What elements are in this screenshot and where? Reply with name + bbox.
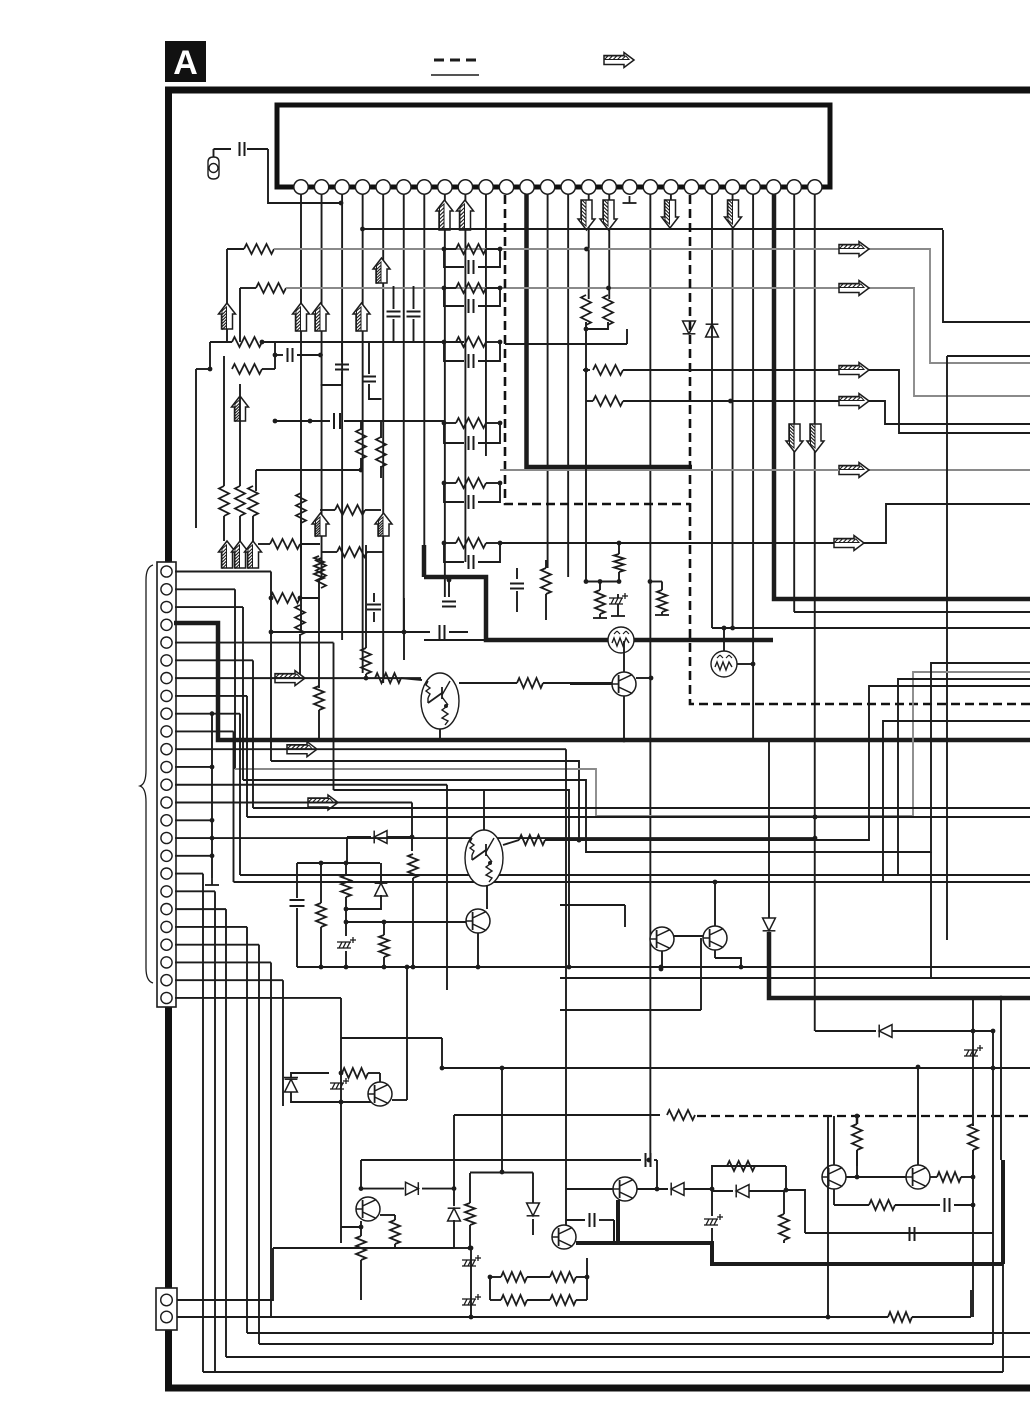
transistor Q5 (368, 1082, 392, 1106)
wire (255, 470, 257, 491)
resistor R54 (390, 1220, 400, 1244)
junction on x212 (210, 765, 215, 770)
resistor R11 (335, 505, 365, 515)
diode D10 (375, 883, 388, 896)
wire connector CN1 pin 24 (175, 979, 283, 981)
wire (387, 836, 412, 838)
resistor R80 (614, 554, 624, 572)
net row y790 (334, 790, 570, 967)
resistor R6 (376, 437, 386, 467)
junction (617, 541, 622, 546)
connector CN1 pin 5 (161, 637, 172, 648)
bus vertical pin 25 (340, 998, 342, 1038)
wire from IC pin 15 (588, 194, 590, 299)
connector CN1 pin 4 (161, 619, 172, 630)
resistor R62 (341, 875, 351, 897)
wire (618, 572, 620, 582)
resistor R30 (581, 295, 591, 325)
wire (444, 288, 464, 306)
capacitor C30 (367, 605, 381, 610)
wire x587 down (585, 401, 587, 582)
capacitor C33 (510, 584, 524, 589)
net on connector pin 7 (175, 677, 421, 679)
junction (498, 286, 503, 291)
connector CN1 pin 24 (161, 975, 172, 986)
connector CN2 pin 2 (161, 1311, 173, 1323)
bus wire thick stub (422, 545, 427, 577)
bus vertical pin 8 (246, 696, 248, 817)
transistor Q10 (906, 1165, 930, 1189)
junction (730, 626, 735, 631)
bus vertical pin 10 (233, 731, 235, 882)
junction on x212 (210, 853, 215, 858)
electrolytic capacitor C50 (462, 1294, 481, 1305)
net line y612 (794, 611, 1030, 613)
junction (659, 967, 664, 972)
net line y863 (297, 862, 380, 864)
junction (488, 861, 492, 865)
junction on x212 (210, 818, 215, 823)
capacitor C7 bold (334, 413, 340, 429)
junction (649, 676, 654, 681)
signal arrow up a19 (375, 513, 392, 537)
wire (297, 354, 321, 356)
connector CN1 pin 23 (161, 957, 172, 968)
electrolytic capacitor C51 (609, 593, 628, 604)
IC IC1 pin 20 (684, 180, 698, 194)
IC IC1 pin 17 (623, 180, 637, 194)
resistor R55 (356, 1236, 366, 1260)
connector CN1 pin 20 (161, 904, 172, 915)
wire (516, 591, 518, 612)
net line y1172 (470, 1172, 533, 1174)
wire (486, 542, 500, 544)
junction (298, 596, 303, 601)
wire (210, 341, 232, 343)
junction on y967 (319, 965, 324, 970)
wire (815, 1030, 876, 1032)
resistor R50 (852, 1124, 862, 1150)
resistor R52 (667, 1110, 695, 1120)
wire (478, 483, 500, 502)
junction (751, 662, 756, 667)
signal arrow right b8 (287, 742, 317, 757)
wire (783, 1190, 785, 1214)
wire (346, 837, 348, 863)
resistor R9 (248, 486, 258, 516)
wire (654, 1159, 657, 1161)
wire (453, 1220, 455, 1248)
wire from IC pin 3 (341, 194, 343, 640)
wire (714, 950, 716, 958)
IC IC1 pin 21 (705, 180, 719, 194)
resistor R12 (270, 539, 300, 549)
wire (340, 1038, 342, 1073)
IC IC1 pin 15 (582, 180, 596, 194)
bus line y1344 (259, 1343, 993, 1345)
wire (532, 1173, 534, 1204)
junction x815 row817 (813, 815, 818, 820)
junction (971, 1029, 976, 1034)
junction (655, 1187, 660, 1192)
ground bar (593, 617, 607, 619)
junction (584, 327, 589, 332)
resistor R25 (456, 538, 486, 548)
junction (359, 1225, 364, 1230)
wire (566, 1219, 585, 1221)
junction (452, 1186, 457, 1191)
wire (586, 400, 593, 402)
bus wire thick y740 (174, 623, 1030, 740)
IC IC1 pin 24 (767, 180, 781, 194)
wire (240, 287, 256, 289)
IC IC1 pin 22 (725, 180, 739, 194)
connector CN1 pin 12 (161, 761, 172, 772)
wire (570, 683, 612, 685)
wire (444, 482, 456, 484)
wire (711, 1191, 713, 1216)
digital transistor Q11 (465, 830, 503, 886)
wire (274, 342, 276, 369)
net row y817 (247, 816, 1030, 818)
junction (269, 630, 274, 635)
wire (320, 927, 322, 967)
wire (503, 840, 519, 845)
diode D9 (374, 831, 387, 844)
wire (586, 581, 619, 583)
resistor R39 (375, 673, 401, 683)
signal arrow up a10 (373, 258, 390, 284)
wire (895, 1204, 940, 1206)
wire (209, 342, 211, 369)
capacitor C24 (469, 495, 474, 509)
wire (972, 1124, 974, 1126)
capacitor C1 (240, 142, 245, 156)
wire (360, 1221, 362, 1236)
signal arrow up a1 (436, 200, 453, 230)
resistor R38 (361, 648, 371, 674)
junction (273, 353, 278, 358)
junction (260, 340, 265, 345)
bus vertical pin 3 (242, 607, 244, 780)
resistor R24 (456, 478, 486, 488)
wire x973 lower (972, 1150, 974, 1317)
junction (318, 353, 323, 358)
wire (661, 612, 663, 615)
wire (586, 322, 608, 329)
net line y344 (505, 343, 627, 345)
resistor R51 (968, 1124, 978, 1150)
junction (784, 1188, 789, 1193)
wire from IC pin 26 (814, 194, 816, 1031)
bus wire thick y640 (424, 577, 773, 640)
signal arrow right b4 (839, 394, 869, 409)
resistor R41 (517, 678, 543, 688)
resistor R40 (541, 568, 551, 594)
ground bar (611, 615, 625, 617)
net line y628 (712, 627, 1030, 629)
signal arrow down a8 (807, 423, 824, 452)
signal arrow right b2 (839, 281, 869, 296)
wire from IC pin 21 (711, 194, 713, 628)
wire (320, 863, 322, 903)
wire (618, 543, 620, 554)
wire (403, 598, 405, 660)
connector CN1 pin 15 (161, 815, 172, 826)
wire Q8 base (566, 1188, 613, 1190)
wire connector CN1 pin 25 (175, 997, 341, 999)
net line y342 (262, 341, 464, 343)
wire (486, 482, 500, 484)
resistor R60 (408, 854, 418, 878)
connector CN1 pin 25 (161, 992, 172, 1003)
wire (599, 614, 601, 618)
wire (768, 741, 770, 918)
wire (401, 678, 422, 680)
connector CN1 pin 21 (161, 921, 172, 932)
wire (478, 249, 500, 267)
wire connector CN1 pin 17 (175, 855, 212, 857)
wire (486, 422, 500, 424)
signal arrow right b7 (275, 671, 305, 686)
wire (380, 466, 382, 478)
net route y543-504 (864, 504, 1030, 543)
wire (444, 249, 464, 267)
wire loop (712, 1166, 786, 1189)
wire (394, 1215, 396, 1220)
junction (444, 704, 448, 708)
wire (444, 483, 464, 502)
diode D8 (527, 1203, 540, 1216)
diode D7 (448, 1208, 461, 1221)
diode D12 (736, 1185, 749, 1198)
net line y421 right (344, 420, 444, 422)
wire (712, 1190, 733, 1192)
wire ground rail x212 (211, 714, 213, 878)
wire from IC pin 8 (444, 194, 446, 597)
wire (441, 1038, 443, 1068)
connector CN1 pin 3 (161, 601, 172, 612)
wire (516, 568, 518, 579)
wire (560, 904, 625, 906)
wire connector CN1 pin 12 (175, 766, 212, 768)
wire (444, 287, 456, 289)
junction (577, 838, 582, 843)
wire (361, 1188, 404, 1190)
wire (674, 935, 703, 937)
wire x566 (565, 749, 567, 1225)
bus vertical pin 22 (258, 945, 260, 1344)
wire (383, 922, 385, 935)
capacitor C32 (440, 625, 445, 639)
net line y905 (560, 904, 625, 906)
wire (486, 287, 500, 289)
wire (340, 1102, 342, 1243)
net line y1233 (805, 1232, 993, 1234)
net on connector pin 13 (175, 784, 447, 786)
connector CN1 pin 2 (161, 584, 172, 595)
wire (296, 863, 298, 898)
resistor R69 (888, 1312, 912, 1322)
resistor R72 (501, 1295, 527, 1305)
bus vertical pin 18 (202, 874, 204, 1372)
wire (341, 342, 343, 362)
capacitor C44 (646, 1153, 651, 1167)
wire connector CN1 pin 18 (175, 873, 203, 875)
wire (239, 516, 241, 541)
wire (223, 356, 225, 486)
wire (490, 1276, 501, 1278)
wire (486, 886, 488, 909)
wire (239, 288, 241, 342)
wire (360, 458, 362, 470)
wire (576, 1299, 587, 1301)
bus line y1372 (203, 1371, 1003, 1373)
wire (838, 248, 840, 250)
junction on y967 (382, 965, 387, 970)
resistor R70 (501, 1272, 527, 1282)
wire (299, 634, 301, 678)
connector CN1 pin 9 (161, 708, 172, 719)
bus wire thick x1003 (1001, 1160, 1005, 1264)
wire from IC pin 7 (423, 194, 425, 545)
resistor R68 (869, 1200, 895, 1210)
wire (347, 836, 371, 838)
transistor Q7 (552, 1225, 576, 1249)
wire connector CN1 pin 6 (175, 659, 253, 661)
junction (360, 227, 365, 232)
junction (319, 861, 324, 866)
capacitor C22 (469, 354, 474, 368)
wire (469, 1225, 471, 1248)
junction (469, 1315, 474, 1320)
transistor Q9 (822, 1165, 846, 1189)
junction (442, 340, 447, 345)
wire (247, 148, 268, 150)
wire from IC pin 25 (793, 194, 795, 612)
wire (444, 341, 456, 343)
bus vertical pin 6 (252, 660, 254, 808)
wire (367, 551, 383, 553)
net line y1160 (361, 1159, 641, 1161)
junction (308, 419, 313, 424)
junction (339, 1071, 344, 1076)
net row y840 (545, 686, 1030, 840)
resistor R22 (456, 337, 486, 347)
wire (444, 423, 464, 443)
capacitor C31 (442, 602, 456, 607)
zener diode D5 (285, 1079, 298, 1092)
wire (930, 1176, 937, 1178)
wire (226, 329, 228, 342)
wire (650, 581, 662, 583)
wire x1001 (1000, 998, 1002, 1160)
junction (622, 738, 627, 743)
wire (623, 696, 625, 740)
net row y808 (253, 807, 1030, 809)
IC IC1 pin 16 (602, 180, 616, 194)
junction (710, 1187, 715, 1192)
net on connector pin 14 (175, 802, 412, 804)
electrolytic capacitor C45 (704, 1214, 723, 1225)
wire (300, 543, 320, 545)
resistor R81 (595, 590, 605, 614)
IC IC1 pin 2 (314, 180, 328, 194)
electrolytic capacitor C49 (462, 1255, 481, 1266)
wire from IC pin 22 (732, 194, 734, 628)
wire (785, 1166, 787, 1189)
dashed block border (505, 195, 690, 504)
wire (318, 710, 320, 740)
diode D1 (683, 321, 696, 334)
junction (713, 880, 718, 885)
resistor R21 (456, 283, 486, 293)
signal arrow down a6 (725, 199, 742, 228)
junction (442, 286, 447, 291)
wire connector CN1 pin 19 (175, 890, 215, 892)
bus vertical pin 5 (333, 643, 335, 790)
wire (1002, 1264, 1004, 1372)
IC IC1 pin 10 (479, 180, 493, 194)
net on connector pin 11 (175, 748, 566, 750)
junction (722, 626, 727, 631)
wire connector CN1 pin 23 (175, 961, 271, 963)
wire (406, 967, 408, 1100)
diode D3 (763, 918, 776, 931)
wire (970, 1290, 972, 1317)
junction (916, 1065, 921, 1070)
connector CN1 pin 7 (161, 673, 172, 684)
wire (270, 597, 271, 599)
net line y543 left part (500, 542, 834, 544)
junction (617, 579, 622, 584)
transistor Q8 (613, 1177, 637, 1201)
junction (488, 1275, 493, 1280)
IC IC1 pin 9 (458, 180, 472, 194)
wire (545, 594, 547, 620)
wire (360, 1160, 362, 1189)
wire (365, 545, 367, 648)
wire (239, 384, 241, 486)
wire (300, 597, 319, 599)
wire (345, 863, 347, 875)
transistor Q4 (703, 926, 727, 950)
wire (340, 1073, 342, 1102)
junction (344, 907, 349, 912)
junction (855, 1175, 860, 1180)
wire from IC pin 10 (485, 194, 487, 456)
dashed block border right (690, 195, 1030, 704)
transistor Q1 (612, 672, 636, 696)
net line y401 (623, 400, 839, 402)
wire rail x587 (586, 1258, 588, 1300)
wire (322, 551, 337, 553)
signal arrow up a16 (232, 541, 249, 569)
signal arrow up a12 (312, 303, 329, 332)
net route y401-424 (864, 401, 1030, 424)
IC IC1 pin 4 (355, 180, 369, 194)
wire (300, 520, 302, 560)
connector CN1 brace (140, 565, 153, 983)
wire (576, 1276, 587, 1278)
wire x471 (470, 1248, 472, 1317)
variable resistor VR1 (608, 627, 634, 653)
wire VR2 top (723, 628, 725, 651)
resistor R53 (342, 1068, 368, 1078)
junction (584, 579, 589, 584)
resistor R34 (270, 593, 300, 603)
wire (749, 1190, 786, 1192)
